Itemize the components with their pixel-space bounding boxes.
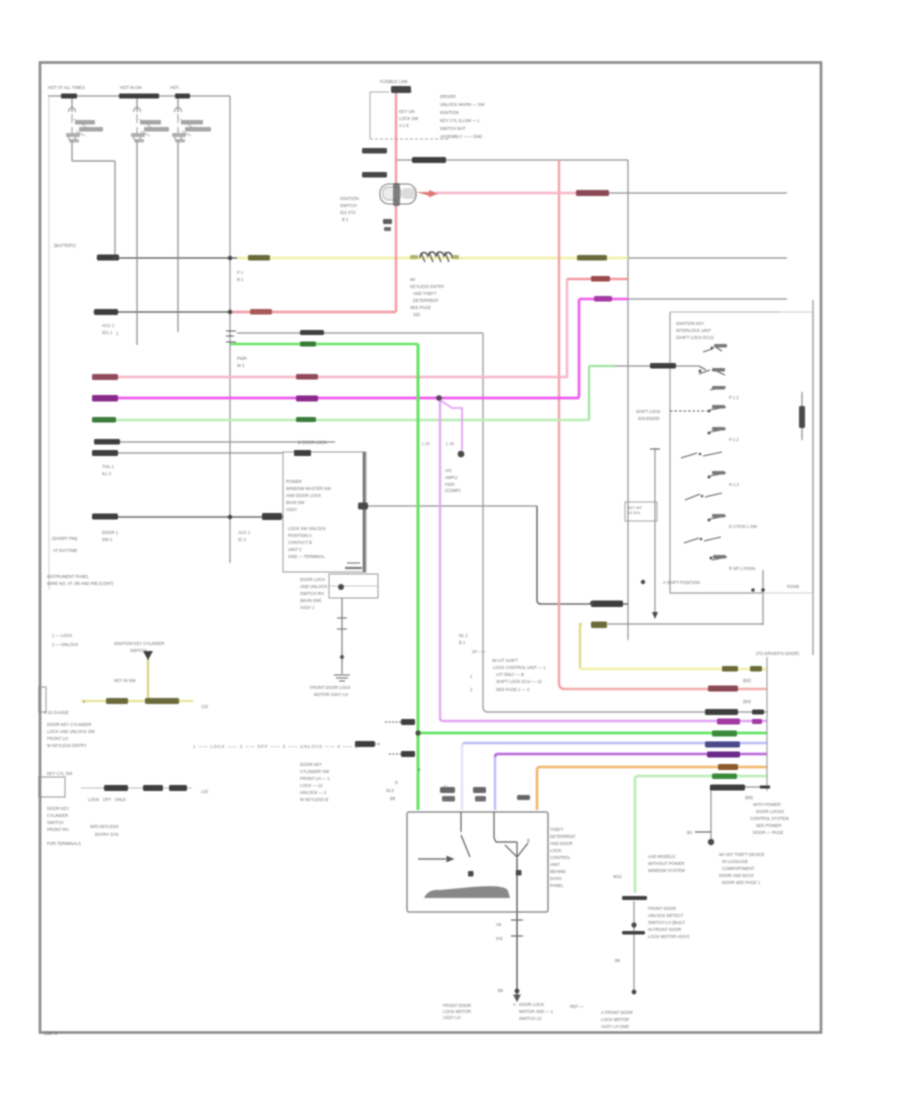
svg-text:SHIFT LOCK: SHIFT LOCK — [636, 409, 661, 414]
svg-text:HOT AT ALL TIMES: HOT AT ALL TIMES — [48, 85, 85, 90]
svg-text:CONTACT B: CONTACT B — [288, 540, 312, 545]
svg-text:IGNITION: IGNITION — [340, 196, 359, 201]
svg-text:WIRE NO. AT J/B AND R/B (CONT): WIRE NO. AT J/B AND R/B (CONT) — [47, 581, 114, 586]
svg-text:DETERRENT: DETERRENT — [550, 834, 576, 839]
svg-text:FRONT DOOR: FRONT DOOR — [443, 1003, 471, 1008]
svg-text:A 22 GAUGE: A 22 GAUGE — [44, 710, 69, 715]
svg-text:SWITCH BAT: SWITCH BAT — [440, 126, 466, 131]
svg-text:B: B — [527, 838, 530, 843]
svg-text:1 —— LOCK —— 2 —— OFF —— 3 ——: 1 —— LOCK —— 2 —— OFF —— 3 —— UNLOCK —— … — [193, 744, 359, 749]
svg-text:B DOOR LOCK: B DOOR LOCK — [298, 440, 327, 445]
svg-text:FIER: FIER — [445, 482, 455, 487]
svg-text:POSITION A: POSITION A — [288, 533, 312, 538]
svg-text:ASSY 1: ASSY 1 — [300, 605, 315, 610]
svg-text:W/O KEYLESS: W/O KEYLESS — [90, 824, 119, 829]
svg-text:W/: W/ — [410, 277, 416, 282]
svg-text:KEY INT: KEY INT — [628, 506, 643, 510]
svg-text:AND DOOR: AND DOOR — [550, 841, 573, 846]
svg-text:SW 2: SW 2 — [102, 537, 113, 542]
svg-text:DL 2: DL 2 — [459, 633, 468, 638]
svg-text:AND DOOR LOCK: AND DOOR LOCK — [286, 493, 321, 498]
svg-text:SWITCH LH (BUILT: SWITCH LH (BUILT — [648, 920, 686, 925]
svg-text:ASSEMBLY —— GND: ASSEMBLY —— GND — [440, 134, 482, 139]
svg-text:ILL 2: ILL 2 — [102, 471, 112, 476]
svg-text:P 1: P 1 — [237, 270, 244, 275]
svg-text:153: 153 — [413, 312, 421, 317]
svg-text:LOCK SW: LOCK SW — [399, 116, 418, 121]
svg-text:UNLOCK DETECT: UNLOCK DETECT — [648, 913, 684, 918]
svg-text:D 2 POS 1 SW: D 2 POS 1 SW — [729, 524, 757, 529]
svg-text:FOR TERMINALS: FOR TERMINALS — [47, 841, 81, 846]
svg-text:TAIL 1: TAIL 1 — [102, 464, 115, 469]
svg-text:IG1 1: IG1 1 — [102, 330, 113, 335]
svg-text:IGNITION: IGNITION — [440, 110, 459, 115]
svg-text:1997 X: 1997 X — [44, 1031, 57, 1036]
svg-text:FRONT LH: FRONT LH — [47, 736, 68, 741]
svg-text:CONTROL: CONTROL — [550, 855, 571, 860]
svg-text:LOCK — 12: LOCK — 12 — [300, 783, 323, 788]
svg-text:DOOR — PAGE: DOOR — PAGE — [753, 830, 784, 835]
svg-text:(SHIFT LOCK ECU): (SHIFT LOCK ECU) — [676, 335, 714, 340]
svg-text:P 1 2: P 1 2 — [729, 437, 739, 442]
svg-text:KEY CYL SW: KEY CYL SW — [47, 771, 72, 776]
svg-text:THEFT: THEFT — [550, 827, 564, 832]
svg-text:LK SOL: LK SOL — [628, 511, 641, 515]
svg-text:LOCK SW UNLOCK: LOCK SW UNLOCK — [288, 526, 326, 531]
svg-text:DRIVER: DRIVER — [440, 94, 456, 99]
svg-text:LOCK OFF UNLK: LOCK OFF UNLK — [88, 797, 126, 802]
svg-text:AT DAYTIME: AT DAYTIME — [53, 548, 78, 553]
svg-text:KEYLESS ENTRY: KEYLESS ENTRY — [410, 284, 445, 289]
svg-text:A 1 6: A 1 6 — [399, 123, 409, 128]
svg-text:B6: B6 — [498, 988, 504, 993]
svg-text:DOOR LOCKS: DOOR LOCKS — [756, 809, 784, 814]
svg-text:IN LUGGAGE: IN LUGGAGE — [722, 859, 748, 864]
svg-text:BEHIND: BEHIND — [550, 869, 566, 874]
svg-text:(SHORT PIN): (SHORT PIN) — [52, 536, 78, 541]
svg-text:WINDOW SYSTEM: WINDOW SYSTEM — [648, 868, 685, 873]
svg-text:KEY UN: KEY UN — [399, 109, 415, 114]
svg-text:LOCK MOTOR: LOCK MOTOR — [601, 1017, 629, 1022]
svg-text:IG 2: IG 2 — [238, 537, 247, 542]
svg-text:(COMP): (COMP) — [445, 488, 461, 493]
svg-text:DETERRENT: DETERRENT — [413, 298, 439, 303]
svg-text:(BATTERY): (BATTERY) — [54, 243, 76, 248]
svg-text:CYLINDER SW: CYLINDER SW — [300, 769, 329, 774]
svg-text:L 14: L 14 — [446, 441, 455, 446]
svg-text:DASH: DASH — [550, 876, 562, 881]
svg-text:MOTOR ASSY LH: MOTOR ASSY LH — [314, 692, 348, 697]
svg-text:POWER: POWER — [286, 479, 302, 484]
svg-text:UNLOCK WARN — SW: UNLOCK WARN — SW — [440, 102, 485, 107]
svg-text:AMPLI: AMPLI — [445, 475, 458, 480]
svg-text:W 2: W 2 — [237, 363, 245, 368]
svg-text:ACC 1: ACC 1 — [102, 323, 115, 328]
svg-text:A: A — [513, 1002, 516, 1007]
svg-text:W12: W12 — [613, 874, 622, 879]
svg-text:P2345: P2345 — [787, 584, 800, 589]
svg-text:LOCK: LOCK — [550, 848, 562, 853]
svg-text:LOCK MOTOR ASSY): LOCK MOTOR ASSY) — [648, 934, 690, 939]
svg-text:LOCK MOTOR: LOCK MOTOR — [443, 1009, 471, 1014]
svg-text:DOOR LOCK: DOOR LOCK — [300, 577, 325, 582]
svg-text:2 — UNLOCK: 2 — UNLOCK — [52, 642, 79, 647]
svg-text:DOOR AND BACK: DOOR AND BACK — [719, 873, 754, 878]
svg-text:INTERLOCK UNIT: INTERLOCK UNIT — [676, 328, 711, 333]
svg-text:SEE PAGE 1 — 3: SEE PAGE 1 — 3 — [496, 687, 530, 692]
svg-text:GND — TERMINAL: GND — TERMINAL — [288, 554, 326, 559]
svg-text:IN FRONT DOOR: IN FRONT DOOR — [648, 927, 681, 932]
svg-text:FRONT RH: FRONT RH — [47, 827, 69, 832]
svg-text:(B4): (B4) — [743, 699, 752, 704]
svg-text:FRONT DOOR: FRONT DOOR — [648, 906, 676, 911]
svg-text:WINDOW MASTER SW: WINDOW MASTER SW — [286, 486, 331, 491]
svg-text:DOOR LOCK: DOOR LOCK — [519, 1002, 544, 1007]
svg-text:IGNITION KEY CYLINDER: IGNITION KEY CYLINDER — [114, 641, 164, 646]
svg-text:DOOR 1: DOOR 1 — [102, 530, 119, 535]
svg-text:A8: A8 — [496, 922, 502, 927]
svg-text:W/ A/T SHIFT: W/ A/T SHIFT — [492, 658, 518, 663]
svg-text:(B2): (B2) — [743, 678, 752, 683]
svg-text:INSTRUMENT PANEL: INSTRUMENT PANEL — [47, 574, 90, 579]
svg-text:LOCK CONTROL UNIT — 1: LOCK CONTROL UNIT — 1 — [493, 665, 546, 670]
svg-text:WITHOUT POWER: WITHOUT POWER — [648, 861, 684, 866]
svg-text:B3: B3 — [687, 830, 693, 835]
svg-text:1 — LOCK: 1 — LOCK — [52, 633, 72, 638]
svg-text:DOOR KEY: DOOR KEY — [300, 762, 322, 767]
svg-text:KEY IN SW: KEY IN SW — [114, 678, 136, 683]
svg-text:UNLOCK — 2: UNLOCK — 2 — [300, 790, 327, 795]
svg-text:AND UNLOCK: AND UNLOCK — [300, 584, 328, 589]
svg-text:SWITCH: SWITCH — [340, 203, 357, 208]
svg-text:SOLENOID: SOLENOID — [638, 416, 660, 421]
svg-text:AND THEFT: AND THEFT — [413, 291, 437, 296]
svg-text:L 21: L 21 — [422, 441, 431, 446]
svg-text:A/T ONLY — B: A/T ONLY — B — [496, 672, 524, 677]
svg-text:LOCK AND UNLOCK SW: LOCK AND UNLOCK SW — [47, 729, 95, 734]
svg-text:ASSY LH: ASSY LH — [443, 1015, 461, 1020]
svg-text:123: 123 — [201, 789, 209, 794]
svg-text:(B6): (B6) — [745, 795, 754, 800]
svg-text:W KEYLESS ENTRY: W KEYLESS ENTRY — [47, 743, 87, 748]
svg-text:24 ——: 24 —— — [472, 649, 487, 654]
svg-text:SWITCH: SWITCH — [47, 820, 64, 825]
svg-text:UNIT C: UNIT C — [288, 547, 302, 552]
svg-text:ASSY: ASSY — [286, 507, 297, 512]
svg-text:PWR: PWR — [237, 356, 247, 361]
svg-text:IG2 ST2: IG2 ST2 — [340, 210, 356, 215]
svg-text:B 2: B 2 — [342, 217, 349, 222]
svg-text:IGNITION KEY: IGNITION KEY — [676, 321, 704, 326]
svg-text:B 1: B 1 — [459, 640, 466, 645]
svg-text:DOOR KEY: DOOR KEY — [47, 806, 69, 811]
svg-text:SWITCH 12: SWITCH 12 — [519, 1016, 542, 1021]
svg-text:A SHIFT POSITION: A SHIFT POSITION — [663, 580, 700, 585]
svg-text:ASSY LH GND: ASSY LH GND — [601, 1024, 629, 1029]
svg-text:MAIN SW: MAIN SW — [286, 500, 304, 505]
svg-text:COMPARTMENT: COMPARTMENT — [722, 866, 755, 871]
svg-text:PANEL: PANEL — [550, 883, 564, 888]
svg-text:DOOR SEE PAGE 1: DOOR SEE PAGE 1 — [722, 880, 761, 885]
svg-text:IH2: IH2 — [496, 936, 503, 941]
svg-text:D: D — [395, 780, 398, 785]
svg-text:CYLINDER: CYLINDER — [47, 813, 68, 818]
svg-text:(MAIN SW): (MAIN SW) — [300, 598, 322, 603]
svg-text:B 1: B 1 — [237, 277, 244, 282]
svg-text:ACC 1: ACC 1 — [238, 530, 251, 535]
svg-text:B8: B8 — [390, 796, 396, 801]
svg-text:CONTROL SYSTEM: CONTROL SYSTEM — [750, 816, 789, 821]
svg-text:W KEYLESS B: W KEYLESS B — [300, 797, 328, 802]
svg-text:ENTRY SYS: ENTRY SYS — [95, 832, 119, 837]
svg-text:SEE PAGE: SEE PAGE — [410, 305, 431, 310]
svg-text:SHIFT LOCK ECU — 12: SHIFT LOCK ECU — 12 — [496, 679, 542, 684]
svg-text:A/C: A/C — [445, 468, 452, 473]
svg-text:B6: B6 — [615, 958, 621, 963]
svg-text:P 1 2: P 1 2 — [729, 395, 739, 400]
svg-text:R NP L POSN: R NP L POSN — [729, 566, 755, 571]
svg-text:123: 123 — [201, 704, 209, 709]
svg-text:HOT..: HOT.. — [170, 85, 181, 90]
svg-text:FUSIBLE LINK: FUSIBLE LINK — [380, 79, 408, 84]
svg-text:KEY CYL ILLUM — L: KEY CYL ILLUM — L — [440, 118, 480, 123]
svg-text:A FRONT DOOR: A FRONT DOOR — [601, 1010, 633, 1015]
svg-text:SWITCH: SWITCH — [130, 648, 147, 653]
svg-text:SWITCH RH: SWITCH RH — [300, 591, 324, 596]
svg-text:N 1 2: N 1 2 — [729, 482, 740, 487]
svg-text:LHD MODELS: LHD MODELS — [648, 854, 675, 859]
svg-text:DOOR KEY CYLINDER: DOOR KEY CYLINDER — [47, 722, 91, 727]
svg-text:W/ ANT THEFT DEVICE: W/ ANT THEFT DEVICE — [719, 852, 765, 857]
svg-text:UNIT: UNIT — [550, 862, 560, 867]
svg-text:(TO DRIVER’S DOOR): (TO DRIVER’S DOOR) — [756, 651, 800, 656]
svg-text:REF —: REF — — [570, 1004, 585, 1009]
svg-text:DL3: DL3 — [386, 788, 394, 793]
svg-text:SEE POWER: SEE POWER — [756, 823, 781, 828]
svg-text:WITH POWER: WITH POWER — [753, 802, 781, 807]
svg-text:FRONT LH — 1: FRONT LH — 1 — [300, 776, 330, 781]
svg-text:MOTOR AND — 1: MOTOR AND — 1 — [519, 1009, 554, 1014]
svg-text:HOT IN ON: HOT IN ON — [120, 85, 142, 90]
svg-text:FRONT DOOR LOCK: FRONT DOOR LOCK — [310, 685, 351, 690]
